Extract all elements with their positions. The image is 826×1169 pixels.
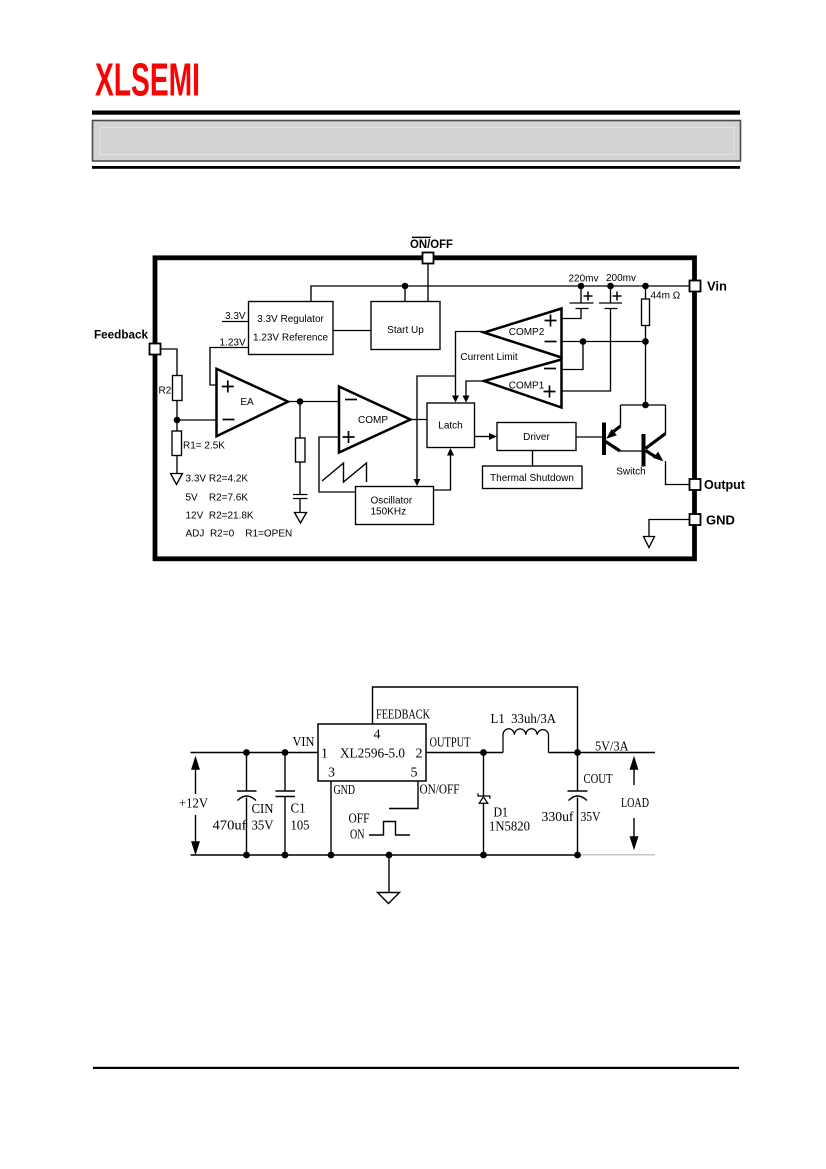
svg-text:150KHz: 150KHz (371, 507, 407, 518)
pin square Feedback (150, 344, 161, 355)
node dot sense resistor top (642, 283, 649, 290)
svg-text:Vin: Vin (707, 279, 727, 294)
node dot EA output (297, 398, 304, 405)
regulator U1 box 3.3V Regulator / 1.23V Reference (249, 302, 334, 355)
wire R2 to node (176, 401, 178, 432)
battery 220mv (570, 286, 594, 309)
svg-text:Feedback: Feedback (94, 328, 148, 342)
svg-text:COMP: COMP (358, 415, 388, 426)
capacitor compensation (293, 495, 308, 499)
svg-text:Start Up: Start Up (387, 325, 424, 336)
svg-text:OUTPUT: OUTPUT (430, 736, 471, 751)
node dot C1 bottom (282, 852, 289, 859)
wire to compensation cap (299, 462, 301, 495)
svg-text:FEEDBACK: FEEDBACK (376, 708, 430, 723)
ground R1 (171, 474, 183, 485)
wire sense resistor stem (645, 286, 647, 299)
COMP2 minus glyph (545, 341, 557, 343)
wire EA output (288, 401, 339, 403)
diode D1 triangle (479, 797, 488, 804)
capacitor COUT stem top (577, 753, 579, 792)
svg-text:1: 1 (321, 747, 328, 762)
svg-text:R2: R2 (159, 386, 172, 397)
node dot C1 top (282, 749, 289, 756)
arrow COMP2 into latch top (452, 396, 459, 403)
wire feedback loop (373, 687, 578, 753)
svg-text:GND: GND (706, 513, 735, 528)
wire Q2 emitter to Output pin (666, 461, 690, 485)
node dot COUT top (574, 749, 581, 756)
svg-text:ON/OFF: ON/OFF (420, 783, 460, 798)
IC U1 XL2596 box (318, 724, 426, 781)
wire COMP2 output to latch (456, 332, 485, 399)
transistor Q1 emitter (606, 442, 621, 452)
wire COMP1 output to latch (466, 381, 484, 399)
svg-text:ADJ R2=0 R1=OPEN: ADJ R2=0 R1=OPEN (186, 529, 293, 540)
wire driver to thermal shutdown (532, 451, 534, 467)
wire GND pin3 (330, 781, 332, 855)
svg-text:Oscillator: Oscillator (371, 496, 413, 507)
EA plus glyph (222, 381, 234, 393)
svg-text:ON: ON (350, 828, 365, 843)
arrow into driver (489, 433, 497, 440)
wire sense to switch collector (645, 342, 647, 406)
capacitor CIN stem top (246, 753, 248, 792)
svg-text:EA: EA (240, 397, 254, 408)
capacitor C1 plates (276, 791, 296, 797)
pin square GND (690, 514, 701, 525)
COMP1 plus glyph (544, 386, 556, 398)
resistor compensation (296, 438, 306, 462)
battery1 plus glyph (584, 292, 593, 301)
ground compensation (295, 513, 307, 524)
node dot diode bottom (480, 852, 487, 859)
arrow into oscillator top (414, 479, 421, 486)
capacitor CIN plates (237, 791, 257, 801)
battery 200mv (599, 286, 622, 309)
resistor R2 (173, 376, 183, 401)
wire GND pin to ground (649, 520, 690, 537)
resistor R1 (172, 431, 182, 456)
svg-text:CIN: CIN (252, 802, 274, 817)
svg-text:200mv: 200mv (606, 273, 636, 284)
svg-text:Thermal Shutdown: Thermal Shutdown (490, 473, 574, 484)
svg-text:Latch: Latch (438, 421, 462, 432)
svg-text:2: 2 (416, 747, 423, 762)
svg-text:C1: C1 (291, 802, 306, 817)
COMP1 minus glyph (544, 368, 556, 370)
svg-text:L1 33uh/3A: L1 33uh/3A (491, 712, 557, 727)
wire R1 to ground (176, 456, 178, 474)
svg-text:Driver: Driver (523, 432, 550, 443)
wire branch to oscillator (417, 376, 456, 482)
svg-text:XL2596-5.0: XL2596-5.0 (340, 747, 405, 762)
transistor Q1 collector (612, 426, 621, 433)
wire driver to switch base (576, 436, 602, 438)
arrow +12V up (192, 758, 199, 794)
node dot startup rail (402, 283, 409, 290)
pin square Vin (690, 281, 701, 292)
wire output pin2 (426, 752, 503, 754)
svg-text:470uf: 470uf (213, 819, 247, 834)
svg-text:3.3V Regulator: 3.3V Regulator (257, 314, 324, 325)
logo XLSEMI (95, 54, 200, 106)
op-amp COMP (339, 387, 411, 453)
svg-text:+12V: +12V (179, 797, 208, 812)
ground GND pin (644, 537, 655, 548)
svg-text:D1: D1 (494, 806, 509, 821)
oscillator box (356, 487, 434, 525)
svg-text:XLSEMI: XLSEMI (95, 54, 200, 106)
resistor 44m ohm (642, 299, 650, 326)
wire oscillator to latch (434, 455, 451, 490)
wire input rail (191, 752, 319, 754)
diode D1 stem bottom (483, 803, 485, 855)
startup box (371, 302, 440, 350)
block diagram outer box (155, 258, 695, 559)
node dot COUT bottom (574, 852, 581, 859)
svg-text:35V: 35V (252, 819, 274, 834)
wire on/off stem (427, 264, 429, 302)
svg-text:1.23V Reference: 1.23V Reference (253, 333, 328, 344)
header gray bar (93, 121, 741, 162)
svg-text:Current Limit: Current Limit (460, 352, 517, 363)
arrow LOAD down (631, 818, 638, 848)
wire startup stem (404, 286, 406, 302)
wire EA output to compensation (299, 402, 301, 439)
wire top rail to Vin (311, 286, 690, 302)
capacitor COUT plates (568, 791, 588, 801)
wire Q1 emitter to Q2 base (620, 450, 642, 452)
wire ground rail faint right (578, 854, 655, 856)
transistor Q2 base bar (642, 434, 646, 467)
comparator COMP1 (484, 360, 562, 408)
wire ground rail (191, 854, 579, 856)
svg-text:COMP1: COMP1 (509, 381, 545, 392)
node dot comparator minus (580, 338, 587, 345)
node dot CIN bottom (243, 852, 250, 859)
arrow +12V down (192, 815, 199, 853)
inductor L1 (503, 729, 549, 753)
capacitor CIN stem bottom (246, 798, 248, 856)
header bottom rule (92, 166, 740, 169)
COMP plus glyph (343, 431, 355, 443)
wire latch to driver (475, 436, 491, 438)
wire inductor to output node (549, 752, 578, 754)
transistor Q2 collector (646, 434, 666, 449)
node dot diode top (480, 749, 487, 756)
arrow Q2 emitter (653, 452, 663, 462)
node dot CIN top (243, 749, 250, 756)
EA minus glyph (223, 419, 235, 421)
svg-text:5V/3A: 5V/3A (595, 740, 629, 755)
overline ON (412, 236, 431, 238)
svg-text:LOAD: LOAD (621, 796, 649, 811)
wire COMP1 minus to node (562, 342, 584, 370)
wire battery1 to COMP2 plus (562, 309, 582, 319)
COMP2 plus glyph (545, 315, 557, 327)
wire switch collector rail (621, 405, 666, 434)
wire battery2 to COMP1 plus (562, 309, 611, 392)
latch box (427, 403, 475, 448)
ground symbol triangle (378, 893, 400, 904)
capacitor C1 stem top (284, 753, 286, 792)
svg-text:VIN: VIN (293, 735, 315, 750)
op-amp EA (217, 369, 289, 437)
svg-text:3.3V: 3.3V (225, 311, 246, 322)
svg-text:COMP2: COMP2 (509, 327, 545, 338)
svg-text:OFF: OFF (349, 812, 370, 827)
thermal shutdown box (483, 466, 583, 489)
svg-text:4: 4 (374, 728, 381, 743)
svg-text:220mv: 220mv (568, 274, 598, 285)
svg-text:1.23V: 1.23V (220, 338, 246, 349)
pin square Output (690, 479, 701, 490)
driver box (497, 423, 576, 451)
capacitor C1 stem bottom (284, 797, 286, 856)
node dot GND rail (328, 852, 335, 859)
capacitor COUT stem bottom (577, 798, 579, 856)
battery2 plus glyph (613, 292, 622, 301)
svg-text:1N5820: 1N5820 (489, 820, 530, 835)
ground symbol stem (388, 855, 390, 893)
svg-text:Output: Output (704, 478, 746, 492)
comparator COMP2 (484, 309, 562, 358)
transistor Q2 emitter (646, 451, 657, 458)
wire 1.23V stub to EA + input (210, 348, 249, 386)
svg-text:35V: 35V (581, 810, 601, 825)
node dot ground symbol (386, 852, 393, 859)
wire COMP2 minus rail (562, 326, 646, 342)
svg-text:330uf: 330uf (542, 810, 574, 825)
diode D1 schottky cathode bar (478, 793, 490, 798)
wire 3.3V stub (222, 321, 249, 323)
wire 5V output rail (578, 752, 656, 754)
node dot sense resistor bottom (642, 338, 649, 345)
COMP minus glyph (345, 399, 357, 401)
arrow LOAD up (631, 758, 638, 785)
diode D1 stem top (483, 753, 485, 797)
svg-text:105: 105 (291, 819, 310, 834)
node dot switch top (642, 402, 649, 409)
svg-text:ON/OFF: ON/OFF (410, 237, 453, 251)
svg-text:COUT: COUT (584, 772, 613, 787)
footer rule (93, 1067, 739, 1069)
arrow Q1 collector (606, 429, 617, 439)
svg-text:5: 5 (411, 766, 418, 781)
arrow into latch bottom (447, 448, 454, 456)
waveform on/off pulse (369, 822, 410, 836)
svg-text:Switch: Switch (616, 467, 645, 478)
arrow COMP1 into latch top (463, 396, 470, 403)
node dot feedback divider (174, 417, 181, 424)
svg-text:3.3V R2=4.2K: 3.3V R2=4.2K (186, 474, 249, 485)
wire COMP plus input to oscillator (319, 437, 356, 492)
svg-text:GND: GND (334, 783, 356, 798)
wire COMP output to latch (411, 419, 428, 421)
wire feedback to R2 (161, 349, 178, 376)
wire node to EA inverting input (177, 419, 217, 421)
svg-text:R1= 2.5K: R1= 2.5K (183, 441, 225, 452)
svg-text:12V R2=21.8K: 12V R2=21.8K (186, 511, 254, 522)
svg-text:44m Ω: 44m Ω (651, 291, 681, 302)
node dot battery1 top (578, 283, 585, 290)
node dot battery2 top (607, 283, 614, 290)
svg-text:5V R2=7.6K: 5V R2=7.6K (186, 493, 249, 504)
svg-text:3: 3 (328, 766, 335, 781)
wire regulator to startup (333, 330, 371, 332)
sawtooth waveform (322, 463, 367, 482)
transistor Q1 base bar (602, 423, 606, 456)
wire cap to ground (299, 499, 301, 513)
pin square ON/OFF (423, 253, 434, 264)
header top rule (92, 111, 740, 115)
wire ON/OFF pin5 (389, 781, 418, 809)
